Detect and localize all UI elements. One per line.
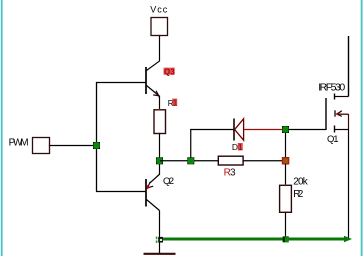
svg-text:PWM: PWM <box>9 137 29 148</box>
wire R2 to ground bus <box>285 212 287 238</box>
svg-text:1: 1 <box>238 143 243 152</box>
junction node A (below R1) <box>156 157 163 164</box>
junction bus left handle <box>156 237 163 243</box>
transistor Q2 <box>146 174 160 211</box>
label Q3 <box>164 67 176 76</box>
transistor Q1 (MOSFET IRF530) <box>326 94 349 133</box>
wire diode cathode horizontal <box>190 129 233 131</box>
wire node A to node B <box>160 160 191 162</box>
resistor R3 <box>218 156 244 165</box>
junction node PWM/base <box>93 142 100 149</box>
wire node C down to node D <box>285 133 287 159</box>
wire R1 to node A <box>159 134 161 159</box>
wire PWM to base column <box>50 145 97 147</box>
wire base column vertical <box>96 82 98 192</box>
wire node C to MOSFET gate <box>289 129 327 131</box>
wire node A to Q2 emitter <box>159 161 161 175</box>
ground <box>144 253 176 255</box>
svg-text:D: D <box>232 142 238 152</box>
decorative window edges (unlabeled) <box>1 0 3 256</box>
wire R3 right to node D <box>243 160 283 162</box>
svg-text:3: 3 <box>230 167 236 178</box>
svg-text:Vcc: Vcc <box>150 5 168 15</box>
wire Q1 drain up <box>348 36 350 97</box>
wire Q1 source down to ground bus <box>348 129 350 239</box>
resistor R1 <box>154 109 166 135</box>
junction node D (brown) <box>282 157 290 165</box>
wire node D to R2 <box>285 164 287 186</box>
wire base column to Q3 base <box>96 82 146 84</box>
ground bus wire (green) <box>162 236 353 243</box>
svg-text:R2: R2 <box>293 189 303 200</box>
wire Vcc to Q3 collector <box>159 36 161 62</box>
input terminal PWM <box>9 137 51 153</box>
svg-text:20k: 20k <box>293 176 309 187</box>
wire node B up to diode cathode <box>190 130 192 159</box>
wire Q2 collector to ground bus <box>159 211 161 254</box>
label R1 <box>168 98 178 108</box>
wire Q3 emitter to R1 <box>159 96 161 111</box>
label R3 <box>224 167 236 178</box>
svg-text:IRF530: IRF530 <box>318 82 345 94</box>
resistor R2 <box>280 184 292 213</box>
label D1 <box>232 142 243 152</box>
diode D1 <box>234 119 244 141</box>
junction node B (diode/R3 tap) <box>187 157 194 164</box>
junction bus at R2 <box>283 236 289 242</box>
wire diode anode to node C (red) <box>244 129 283 131</box>
transistor Q3 <box>146 61 160 98</box>
svg-text:1: 1 <box>173 98 178 107</box>
svg-text:Q1: Q1 <box>327 134 339 145</box>
svg-text:Q2: Q2 <box>163 176 174 187</box>
wire R3 left <box>194 160 219 162</box>
svg-text:Q3: Q3 <box>164 67 175 76</box>
wire base column to Q2 base <box>96 191 146 193</box>
junction node C (gate node) <box>282 126 289 133</box>
power terminal Vcc <box>150 5 168 37</box>
